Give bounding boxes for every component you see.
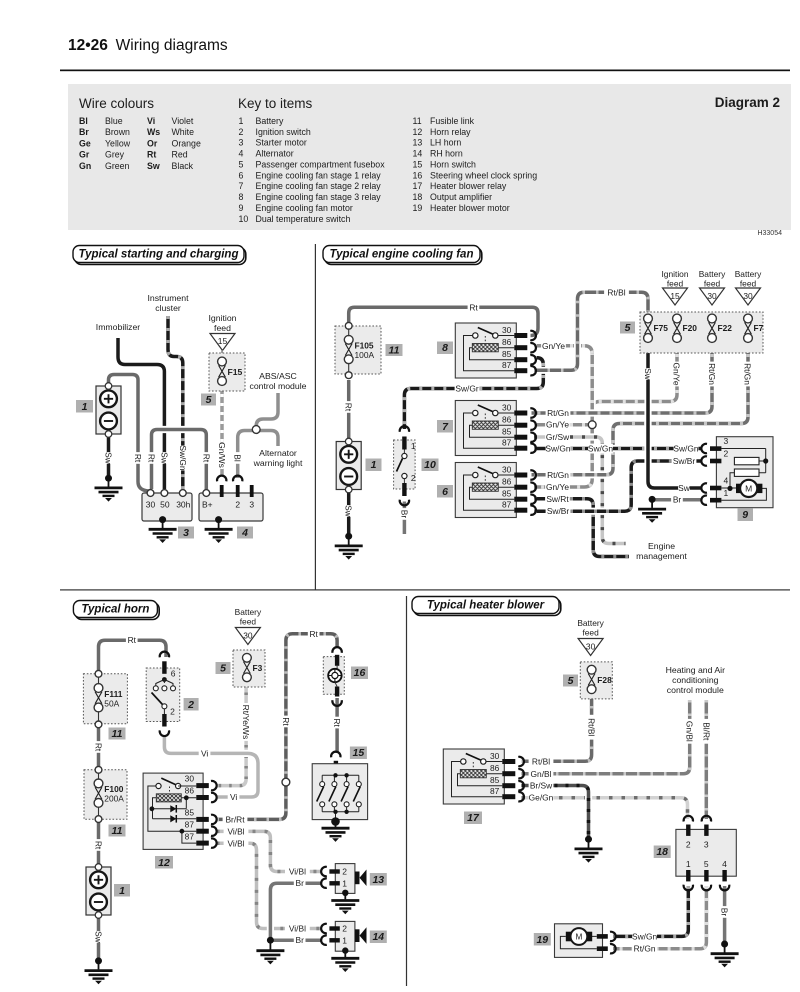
svg-text:Blue: Blue [105, 116, 123, 126]
svg-text:Sw: Sw [104, 452, 114, 465]
svg-text:F28: F28 [597, 675, 612, 685]
wire Rt/Ye/Ws fuse F3 to relay12-30 [217, 682, 247, 786]
svg-text:Rt/Gn: Rt/Gn [547, 408, 569, 418]
svg-text:management: management [636, 551, 687, 561]
engine cooling fan motor 9 [716, 437, 773, 508]
svg-text:30: 30 [146, 500, 156, 510]
relay 8 engine cooling fan stage 3 [455, 323, 536, 378]
wire Gn/Bl module to relay17-86 [522, 700, 690, 774]
section title: Typical engine cooling fan [325, 248, 482, 265]
svg-text:1: 1 [686, 859, 691, 869]
svg-text:Rt: Rt [332, 718, 342, 727]
svg-text:Gr: Gr [79, 150, 90, 160]
svg-text:Typical heater blower: Typical heater blower [427, 600, 545, 612]
label 1 [76, 400, 93, 413]
label 8 [437, 342, 453, 355]
svg-text:12: 12 [413, 127, 423, 137]
section title: Typical heater blower [414, 599, 561, 616]
steering wheel clock spring 16 [323, 657, 344, 695]
svg-text:cluster: cluster [155, 303, 181, 313]
svg-text:Output amplifier: Output amplifier [430, 192, 492, 202]
svg-text:11: 11 [112, 825, 123, 837]
wire labels horn [126, 635, 138, 645]
svg-text:4: 4 [239, 149, 244, 159]
svg-text:Sw: Sw [678, 483, 691, 493]
svg-text:Engine: Engine [648, 541, 675, 551]
svg-text:Battery: Battery [235, 607, 262, 617]
svg-text:Heating and Air: Heating and Air [666, 665, 726, 675]
svg-text:Horn relay: Horn relay [430, 127, 471, 137]
label 7 [437, 420, 453, 433]
svg-text:30: 30 [743, 291, 753, 301]
label 15 [350, 747, 367, 760]
fusebox 5 with F75 F20 F22 F7 [640, 312, 763, 353]
svg-text:3: 3 [704, 840, 709, 850]
svg-text:Sw/Gn: Sw/Gn [545, 444, 570, 454]
svg-text:Gn: Gn [79, 161, 91, 171]
svg-text:Sw: Sw [643, 368, 653, 381]
svg-text:Battery: Battery [256, 116, 284, 126]
wire Vi ignition switch to relay12-86 [164, 735, 258, 797]
svg-text:Br/Rt: Br/Rt [225, 814, 245, 824]
svg-text:Steering wheel clock spring: Steering wheel clock spring [430, 170, 537, 180]
svg-text:feed: feed [667, 279, 684, 289]
svg-text:1: 1 [342, 878, 347, 888]
svg-text:Rt/Bl: Rt/Bl [532, 756, 550, 766]
wire Rt/Gn fuse F22 to relay7-30 [532, 342, 713, 413]
svg-text:Rt: Rt [281, 717, 291, 726]
wire Sw cooling battery to ground [347, 490, 351, 535]
wire Br horn 13 and horn 14 to ground [270, 883, 322, 940]
wire Gn/Ws fuse F15 to alternator terminal [220, 385, 224, 477]
wire Gn/Ye relay7-86 to junction node [534, 423, 592, 427]
wire Br temperature switch to ground [403, 502, 407, 535]
ground below horn switch [331, 817, 340, 826]
svg-text:Ws: Ws [147, 127, 160, 137]
svg-text:18: 18 [413, 192, 423, 202]
svg-text:Instrument: Instrument [147, 293, 189, 303]
svg-text:Br: Br [720, 908, 730, 917]
svg-text:Engine cooling fan stage 3 rel: Engine cooling fan stage 3 relay [256, 192, 382, 202]
svg-text:F20: F20 [683, 323, 698, 333]
svg-text:4: 4 [724, 476, 729, 486]
svg-text:Engine cooling fan stage 1 rel: Engine cooling fan stage 1 relay [256, 170, 382, 180]
svg-text:Ignition: Ignition [208, 313, 236, 323]
svg-text:F111: F111 [104, 689, 123, 699]
wire Sw/Rt relay6-85 to engine management [534, 499, 629, 557]
svg-text:2: 2 [411, 473, 416, 483]
svg-text:30: 30 [707, 291, 717, 301]
svg-text:16: 16 [354, 667, 366, 679]
svg-text:Vi/Bl: Vi/Bl [227, 838, 244, 848]
node connector ABS/alternator [252, 426, 260, 434]
svg-text:feed: feed [704, 279, 721, 289]
svg-text:87: 87 [185, 832, 195, 842]
svg-text:Sw/Gr: Sw/Gr [455, 384, 478, 394]
svg-text:11: 11 [413, 116, 422, 126]
svg-text:Rt/Gn: Rt/Gn [634, 944, 656, 954]
section divider lines [60, 589, 790, 590]
wire Rt/Gn fuse F7 to relay6-30 [532, 342, 749, 475]
svg-text:Rt/Gn: Rt/Gn [547, 470, 569, 480]
svg-text:5: 5 [568, 675, 574, 687]
svg-text:Ignition switch: Ignition switch [256, 127, 311, 137]
dual temperature switch 10 [394, 440, 416, 489]
svg-text:M: M [745, 484, 752, 494]
svg-text:Brown: Brown [105, 127, 130, 137]
svg-text:Rt: Rt [147, 454, 157, 463]
svg-text:Rt: Rt [133, 454, 143, 463]
wire Gn/Ye fuse F20 down to junction vertical [592, 342, 677, 413]
svg-text:Grey: Grey [105, 150, 125, 160]
svg-text:2: 2 [187, 699, 194, 711]
label 5 [563, 675, 578, 687]
svg-text:30h: 30h [176, 500, 190, 510]
svg-text:Engine cooling fan motor: Engine cooling fan motor [256, 203, 353, 213]
svg-text:30: 30 [243, 631, 253, 641]
ground below horn battery [95, 957, 102, 964]
wire Gn/Ye junction vertical relay8-86 to relay6-86 [534, 352, 592, 487]
relay 12 coil [156, 794, 181, 802]
svg-text:Rt/Bl: Rt/Bl [587, 718, 597, 736]
motor terminals [710, 446, 721, 451]
svg-text:Vi/Bl: Vi/Bl [289, 867, 306, 877]
svg-text:19: 19 [413, 203, 423, 213]
wire Sw immobilizer to starter terminal 50 [118, 338, 164, 489]
fuse F28 in holder 5 [580, 662, 612, 699]
svg-text:Battery: Battery [577, 618, 604, 628]
label 1 [114, 884, 130, 897]
node connector on horn feed wire [282, 778, 290, 786]
wire Sw/Gn amplifier pin 1 to blower motor [613, 886, 688, 936]
svg-text:Starter motor: Starter motor [256, 138, 307, 148]
heater blower relay 17 [443, 749, 524, 804]
svg-text:F7: F7 [754, 323, 764, 333]
svg-text:5: 5 [239, 160, 244, 170]
fan resistor 1 [734, 457, 759, 464]
svg-text:1: 1 [119, 885, 125, 897]
wire Br ground to fan motor terminal 1 [652, 498, 702, 502]
horn relay 12 [143, 773, 203, 849]
svg-text:Fusible link: Fusible link [430, 116, 475, 126]
label 5 [620, 322, 635, 334]
svg-text:6: 6 [171, 669, 176, 679]
svg-text:Ge/Gn: Ge/Gn [529, 793, 554, 803]
ground centre cooling [649, 496, 656, 503]
svg-text:14: 14 [372, 931, 384, 943]
wire labels heater [587, 715, 597, 740]
svg-text:5: 5 [220, 663, 226, 675]
svg-text:Bl: Bl [79, 116, 88, 126]
wire Rt/Bl fuse F28 to relay17-30 [522, 693, 592, 762]
svg-text:Rt/Ye/Ws: Rt/Ye/Ws [241, 705, 251, 740]
svg-text:Br: Br [399, 510, 409, 519]
svg-text:Violet: Violet [172, 116, 194, 126]
svg-text:Heater blower motor: Heater blower motor [430, 203, 510, 213]
svg-text:19: 19 [536, 934, 548, 946]
svg-text:Sw: Sw [147, 161, 160, 171]
svg-text:2: 2 [342, 924, 347, 934]
svg-text:87: 87 [185, 820, 195, 830]
svg-text:15: 15 [670, 291, 680, 301]
svg-text:Vi/Bl: Vi/Bl [227, 826, 244, 836]
svg-text:15: 15 [353, 747, 365, 759]
svg-text:17: 17 [467, 812, 480, 824]
svg-text:Rt: Rt [94, 841, 104, 850]
svg-text:Bl: Bl [233, 454, 243, 462]
label 9 [738, 509, 754, 522]
svg-text:Gn/Bl: Gn/Bl [531, 769, 552, 779]
svg-text:8: 8 [442, 342, 448, 354]
svg-text:F75: F75 [654, 323, 669, 333]
svg-text:3: 3 [183, 527, 189, 539]
horn 13 speaker symbol [355, 872, 360, 885]
svg-text:warning light: warning light [253, 458, 303, 468]
label 11 [109, 825, 126, 837]
svg-text:86: 86 [185, 786, 195, 796]
wire Bl/Rt module to amplifier pin 3 [703, 700, 710, 819]
legend panel [68, 84, 791, 230]
svg-text:Rt/Bl: Rt/Bl [607, 287, 625, 297]
svg-text:13: 13 [372, 874, 384, 886]
svg-text:Sw: Sw [159, 452, 169, 465]
ground below horn Br wire [267, 937, 274, 944]
svg-text:2: 2 [235, 500, 240, 510]
svg-text:Br: Br [296, 935, 305, 945]
svg-text:9: 9 [742, 509, 748, 521]
svg-text:Gn/Ws: Gn/Ws [217, 442, 227, 468]
ground below amplifier Br [721, 941, 728, 948]
svg-text:Typical horn: Typical horn [81, 604, 149, 616]
svg-text:Horn switch: Horn switch [430, 160, 476, 170]
svg-text:Sw/Gn: Sw/Gn [632, 931, 657, 941]
svg-text:Engine cooling fan stage 2 rel: Engine cooling fan stage 2 relay [256, 181, 382, 191]
svg-text:White: White [172, 127, 195, 137]
wire Gn/Ye from relay 8 terminal 86 [534, 346, 592, 354]
wire Rt top link F111 to ignition switch 2 [99, 640, 167, 672]
svg-text:conditioning: conditioning [672, 675, 719, 685]
svg-text:control module: control module [250, 381, 307, 391]
svg-text:Alternator: Alternator [259, 448, 297, 458]
label 12 [155, 856, 173, 869]
fusible link F100 [84, 770, 127, 820]
svg-text:85: 85 [185, 808, 195, 818]
svg-text:1: 1 [724, 488, 729, 498]
wire Br/Sw relay17-85 to ground [522, 786, 589, 838]
relay 6 engine cooling fan stage 1 [455, 463, 536, 518]
svg-text:Br: Br [673, 495, 682, 505]
wire Vi/Bl relay12-87a to LH horn 13 [217, 831, 323, 871]
svg-text:2: 2 [342, 867, 347, 877]
wire Rt clock spring to horn switch [335, 698, 339, 753]
label 5 [201, 394, 216, 406]
wire Sw/Br relay6-87 to fan motor terminal 2 [534, 461, 702, 511]
svg-text:Br/Sw: Br/Sw [530, 781, 553, 791]
svg-text:10: 10 [424, 459, 436, 471]
svg-text:Gr/Sw: Gr/Sw [546, 432, 570, 442]
svg-text:Yellow: Yellow [105, 138, 131, 148]
wire labels cooling fan [468, 302, 480, 312]
RH horn 14 [335, 921, 355, 951]
wire Rt/Gn amplifier pin 5 to blower motor [613, 886, 706, 949]
svg-text:Br: Br [296, 878, 305, 888]
label 19 [534, 933, 551, 946]
ground below Br/Sw [585, 836, 592, 843]
svg-text:RH horn: RH horn [430, 149, 463, 159]
svg-text:Vi: Vi [147, 116, 155, 126]
svg-text:3: 3 [724, 436, 729, 446]
svg-text:Passenger compartment fusebox: Passenger compartment fusebox [256, 160, 386, 170]
svg-text:Key to items: Key to items [238, 96, 313, 111]
relay 12 terminals [196, 783, 209, 788]
heater blower motor 19 [555, 924, 603, 958]
svg-text:1: 1 [82, 401, 88, 413]
label 17 [464, 812, 482, 825]
svg-text:F3: F3 [253, 663, 263, 673]
wire labels [133, 452, 143, 464]
svg-text:17: 17 [413, 181, 423, 191]
svg-text:F100: F100 [104, 784, 123, 794]
svg-text:2: 2 [239, 127, 244, 137]
svg-text:12: 12 [158, 857, 170, 869]
svg-text:Sw/Gn: Sw/Gn [178, 445, 188, 470]
svg-text:Ignition: Ignition [661, 269, 688, 279]
fan motor M [736, 484, 742, 493]
battery 1 [96, 383, 121, 438]
svg-text:Rt/Gn: Rt/Gn [743, 363, 753, 385]
svg-text:Orange: Orange [172, 138, 201, 148]
svg-text:8: 8 [239, 192, 244, 202]
fuse F3 in holder 5 [233, 650, 265, 687]
svg-text:15: 15 [413, 160, 423, 170]
svg-text:Rt/Gn: Rt/Gn [707, 363, 717, 385]
svg-text:Or: Or [147, 138, 158, 148]
label 11 [386, 344, 403, 356]
svg-text:feed: feed [582, 628, 599, 638]
svg-text:30: 30 [586, 642, 596, 652]
battery 1 cooling [336, 438, 361, 493]
svg-text:50: 50 [160, 500, 170, 510]
svg-text:10: 10 [239, 214, 249, 224]
svg-text:feed: feed [240, 617, 257, 627]
svg-text:Sw: Sw [94, 931, 104, 944]
label 16 [351, 667, 368, 680]
svg-text:Sw/Br: Sw/Br [673, 456, 696, 466]
svg-text:4: 4 [722, 859, 727, 869]
horn 14 speaker symbol [355, 929, 360, 942]
label 6 [437, 485, 453, 498]
starter motor 3 [142, 493, 192, 521]
wire Rt/Bl relay8-87 to fuse F75 [534, 292, 648, 370]
svg-text:Gn/Ye: Gn/Ye [546, 482, 569, 492]
fusible link F111 [83, 674, 127, 724]
label 13 [370, 873, 387, 886]
svg-text:Rt: Rt [344, 403, 354, 412]
svg-text:50A: 50A [104, 699, 119, 709]
svg-text:14: 14 [413, 149, 423, 159]
svg-text:Sw: Sw [344, 505, 354, 518]
alternator 4 [199, 493, 263, 521]
svg-text:3: 3 [249, 500, 254, 510]
svg-text:Battery: Battery [699, 269, 726, 279]
horn switch 15 [331, 752, 340, 758]
svg-text:Ge: Ge [79, 138, 91, 148]
ground below alternator [215, 516, 222, 523]
junction node at relay7-86 [588, 421, 596, 429]
svg-text:F22: F22 [718, 323, 733, 333]
svg-text:Battery: Battery [735, 269, 762, 279]
svg-text:Sw/Br: Sw/Br [547, 506, 570, 516]
svg-text:Typical engine cooling fan: Typical engine cooling fan [330, 249, 474, 261]
svg-text:Green: Green [105, 161, 130, 171]
svg-text:control module: control module [667, 685, 724, 695]
svg-text:feed: feed [214, 323, 231, 333]
battery 1 horn [86, 864, 111, 919]
svg-text:Rt: Rt [469, 302, 478, 312]
wire to alternator warning light [256, 431, 278, 447]
wire from ABS/ASC control module [256, 393, 278, 428]
wire Gr/Sw relay7-85 to engine management [534, 437, 626, 544]
svg-text:Immobilizer: Immobilizer [96, 322, 141, 332]
svg-text:Alternator: Alternator [256, 149, 294, 159]
ground below starter [159, 516, 166, 523]
svg-text:2: 2 [686, 840, 691, 850]
svg-text:Rt: Rt [128, 635, 137, 645]
label 11 [109, 728, 126, 740]
svg-text:LH horn: LH horn [430, 138, 461, 148]
label 10 [422, 459, 439, 472]
svg-text:200A: 200A [104, 794, 124, 804]
ignition switch 2 [146, 668, 180, 722]
svg-text:Gn/Ye: Gn/Ye [546, 420, 569, 430]
relay 12 diodes [170, 805, 176, 812]
wire Sw/Gn instrument cluster to starter terminal 30h [168, 316, 183, 489]
svg-text:18: 18 [656, 846, 668, 858]
ground below cooling battery [345, 533, 352, 540]
svg-text:H33054: H33054 [757, 230, 782, 237]
svg-text:Bl/Rt: Bl/Rt [701, 722, 711, 741]
svg-text:6: 6 [442, 486, 448, 498]
wire Sw/Gr relay8-85 to dual temperature switch [404, 358, 543, 429]
svg-text:12•26 Wiring diagrams: 12•26 Wiring diagrams [68, 37, 228, 54]
svg-text:Vi: Vi [230, 792, 237, 802]
svg-text:4: 4 [241, 527, 248, 539]
relay 7 engine cooling fan stage 2 [455, 401, 536, 456]
svg-text:100A: 100A [355, 350, 375, 360]
svg-text:Typical starting and charging: Typical starting and charging [79, 249, 239, 261]
svg-text:11: 11 [112, 728, 123, 740]
wire Vi/Bl relay12-87b to RH horn 14 [217, 843, 323, 928]
svg-text:ABS/ASC: ABS/ASC [259, 371, 297, 381]
svg-text:5: 5 [625, 322, 631, 334]
svg-text:1: 1 [371, 459, 377, 471]
svg-text:Gn/Ye: Gn/Ye [672, 363, 682, 386]
svg-text:Vi/Bl: Vi/Bl [289, 924, 306, 934]
svg-text:Rt: Rt [94, 743, 104, 752]
label 5 [216, 662, 231, 674]
svg-text:Dual temperature switch: Dual temperature switch [256, 214, 351, 224]
section title: Typical horn [75, 603, 159, 620]
svg-text:1: 1 [239, 116, 244, 126]
svg-text:5: 5 [206, 394, 212, 406]
wire Ge/Gn relay17-87 to amplifier pin 2 [522, 798, 688, 819]
svg-text:F105: F105 [355, 341, 374, 351]
wire Br/Rt relay12-85 to horn switch feed [217, 634, 338, 820]
svg-text:Vi: Vi [201, 748, 208, 758]
fan resistor 2 [734, 469, 759, 476]
svg-text:1: 1 [411, 441, 416, 451]
svg-text:6: 6 [239, 170, 244, 180]
